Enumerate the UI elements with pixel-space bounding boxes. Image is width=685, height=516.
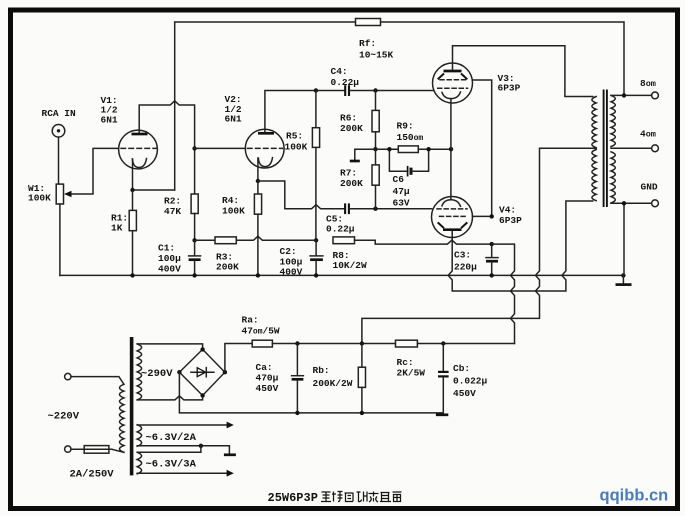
svg-text:Cb:: Cb: xyxy=(453,363,470,374)
svg-text:47om/5W: 47om/5W xyxy=(242,326,280,337)
junction V2 cathode xyxy=(256,179,260,183)
fuse 2A/250V xyxy=(71,448,112,450)
svg-text:Ca:: Ca: xyxy=(256,362,273,373)
wire bridge DC+ up to Ra xyxy=(225,344,252,373)
svg-text:6P3P: 6P3P xyxy=(498,83,521,94)
svg-text:450V: 450V xyxy=(453,388,476,399)
potentiometer W1 xyxy=(56,184,63,204)
terminal 8om xyxy=(652,92,659,99)
wire V4 plate down and around to primary bottom (hops ground rail and verticals) xyxy=(448,201,593,291)
wire screen feed from Rc node (hops rail, plate link, B+ line) xyxy=(492,244,515,343)
svg-text:63V: 63V xyxy=(393,198,410,209)
svg-text:C2:: C2: xyxy=(280,246,297,257)
capacitor C6 bypass loop xyxy=(389,149,406,171)
svg-text:100K: 100K xyxy=(28,193,51,204)
svg-text:0.22μ: 0.22μ xyxy=(331,77,360,88)
junction R5 top xyxy=(314,88,318,92)
output transformer secondary winding xyxy=(611,95,615,146)
ground stub at R6/R7 node xyxy=(355,149,376,160)
wire 8 ohm tap xyxy=(611,94,652,96)
capacitor C1 electrolytic xyxy=(194,240,196,255)
wire V2 cathode to C5 (hop over R5/C2 line) xyxy=(258,181,344,209)
svg-text:400V: 400V xyxy=(158,264,181,275)
wire bridge DC- to PSU ground rail xyxy=(179,372,442,413)
output transformer core xyxy=(603,90,605,208)
svg-text:10K/2W: 10K/2W xyxy=(333,260,368,271)
wire V1 cathode lead xyxy=(132,159,134,190)
resistor R9 cathode bias xyxy=(376,148,399,150)
wire C4 to V3 grid xyxy=(350,90,434,92)
svg-text:100K: 100K xyxy=(222,206,245,217)
svg-text:R4:: R4: xyxy=(222,195,239,206)
svg-text:~6.3V/3A: ~6.3V/3A xyxy=(146,459,197,471)
svg-text:220μ: 220μ xyxy=(454,262,477,273)
svg-text:qqibb.cn: qqibb.cn xyxy=(600,487,669,505)
svg-text:10~15K: 10~15K xyxy=(359,50,394,61)
svg-text:C6: C6 xyxy=(393,174,405,185)
capacitor Ca electrolytic xyxy=(296,344,298,375)
terminal 4om xyxy=(652,145,659,152)
svg-text:Rf:: Rf: xyxy=(359,38,376,49)
wire 4 ohm tap xyxy=(611,147,652,149)
PSU: mains terminal top xyxy=(65,373,71,379)
wire W1 bottom to ground rail xyxy=(59,204,61,275)
wire V3 cathode down to bias node xyxy=(450,99,452,150)
wire heater 2A bottom to chassis xyxy=(137,446,229,454)
svg-text:Rc:: Rc: xyxy=(397,357,414,368)
capacitor C5 xyxy=(344,203,346,214)
wire V3 plate to primary top xyxy=(453,46,593,97)
svg-text:470μ: 470μ xyxy=(256,373,279,384)
heater winding 6.3V/3A xyxy=(137,452,141,474)
svg-text:1K: 1K xyxy=(111,223,123,234)
svg-text:GND: GND xyxy=(641,182,658,193)
wire B+ first node line xyxy=(272,343,395,345)
svg-text:Rb:: Rb: xyxy=(313,365,330,376)
wire V2 cathode lead xyxy=(257,158,259,181)
svg-text:100K: 100K xyxy=(285,141,308,152)
svg-text:C4:: C4: xyxy=(331,66,348,77)
capacitor C4 xyxy=(344,85,346,96)
resistor R6 xyxy=(375,91,377,111)
svg-text:RCA IN: RCA IN xyxy=(42,108,77,119)
wire jack to W1 xyxy=(58,137,60,184)
svg-text:47μ: 47μ xyxy=(393,186,410,197)
junction R2/C1/R3 xyxy=(192,238,196,242)
power transformer core xyxy=(130,337,134,475)
svg-text:200K: 200K xyxy=(216,262,239,273)
wire C5 to V4 grid xyxy=(350,208,432,210)
svg-text:R5:: R5: xyxy=(286,131,303,142)
svg-text:C3:: C3: xyxy=(454,250,471,261)
W1 wiper arrow and grid wire xyxy=(70,148,119,194)
wire V2 plate to C4 line xyxy=(265,91,344,132)
svg-text:25W6P3P: 25W6P3P xyxy=(268,491,318,505)
svg-text:R9:: R9: xyxy=(397,121,414,132)
junction R6/R7/R9 node xyxy=(373,147,377,151)
svg-text:C1:: C1: xyxy=(158,243,175,254)
HV secondary winding 290V xyxy=(137,344,141,400)
resistor R3 on B+ sub-line (hop over R4 lead) xyxy=(195,239,215,241)
svg-text:0.022μ: 0.022μ xyxy=(453,376,488,387)
resistor R8 to screen node (hop over V4 plate line) xyxy=(333,237,355,244)
wire 290V bottom to bridge AC2 (hop over DC- drop) xyxy=(137,396,202,400)
junction screen node with R8 feed xyxy=(490,242,494,246)
beam tetrode V3 xyxy=(433,63,473,103)
wire V4 cathode up to bias node xyxy=(450,149,452,199)
beam tetrode V4 (inverted) xyxy=(432,197,473,238)
junction R6 top xyxy=(373,88,377,92)
svg-text:450V: 450V xyxy=(256,383,279,394)
triode V2 xyxy=(245,129,284,168)
junction R7 bottom xyxy=(373,207,377,211)
wire V1 plate up and over to R2 (hop over feedback line) xyxy=(139,101,194,194)
junction V1 cathode xyxy=(130,188,134,192)
resistor R5 xyxy=(315,91,317,128)
svg-text:~220V: ~220V xyxy=(48,411,80,423)
triode V1 xyxy=(119,130,158,169)
wire V4 screen to screen bus xyxy=(473,215,492,217)
B+ line from PSU to primary center tap (hops rail and plate link) xyxy=(362,148,596,343)
title CJK glyph blocks xyxy=(321,492,402,503)
svg-text:6P3P: 6P3P xyxy=(499,215,522,226)
wire V2 grid from R2 node xyxy=(195,147,246,149)
capacitor C2 electrolytic xyxy=(315,240,317,255)
svg-text:200K: 200K xyxy=(340,178,363,189)
output transformer T2 primary winding xyxy=(592,97,596,148)
svg-text:0.22μ: 0.22μ xyxy=(326,224,355,235)
svg-text:100μ: 100μ xyxy=(158,253,181,264)
resistor R1 xyxy=(132,190,134,210)
junction R5/C2/R3/R8 xyxy=(314,238,318,242)
svg-text:Ra:: Ra: xyxy=(242,315,259,326)
resistor Rf xyxy=(356,19,381,26)
svg-text:200K/2W: 200K/2W xyxy=(313,378,353,389)
resistor R4 xyxy=(257,181,259,194)
svg-text:V4:: V4: xyxy=(499,205,516,216)
node: top feedback rail xyxy=(175,22,356,190)
svg-text:6N1: 6N1 xyxy=(101,114,118,125)
svg-text:6N1: 6N1 xyxy=(225,114,242,125)
svg-text:2K/5W: 2K/5W xyxy=(397,368,426,379)
mains terminal bottom xyxy=(65,446,71,452)
wire GND tap down to ground rail xyxy=(611,202,652,204)
svg-text:4om: 4om xyxy=(640,129,656,140)
svg-text:150om: 150om xyxy=(397,132,424,143)
capacitor Cb xyxy=(442,344,444,371)
junction dot V2 grid tap xyxy=(192,146,196,150)
wire mains top to primary xyxy=(71,377,124,385)
resistor R7 xyxy=(375,149,377,165)
resistor Rc screen dropper xyxy=(396,340,418,347)
resistor R2 xyxy=(191,194,198,214)
resistor Rb bleeder xyxy=(361,344,363,368)
svg-text:8om: 8om xyxy=(640,78,656,89)
svg-text:~6.3V/2A: ~6.3V/2A xyxy=(146,432,197,444)
heater winding 6.3V/2A xyxy=(137,425,141,447)
wire 290V top to bridge AC1 xyxy=(137,344,202,350)
resistor Ra xyxy=(252,340,272,347)
capacitor C3 electrolytic xyxy=(491,244,493,257)
svg-text:47K: 47K xyxy=(164,206,181,217)
terminal GND xyxy=(652,200,659,207)
ground symbol at PSU rail end xyxy=(436,413,448,416)
bridge rectifier D1 xyxy=(179,349,225,395)
power transformer T1 primary winding 220V xyxy=(120,384,124,452)
wire feedback to cathode node xyxy=(133,189,175,191)
svg-text:2A/250V: 2A/250V xyxy=(70,469,115,481)
svg-text:200K: 200K xyxy=(340,123,363,134)
svg-text:R6:: R6: xyxy=(340,112,357,123)
ground symbol at rail right end xyxy=(622,275,624,283)
main ground rail xyxy=(60,274,624,276)
svg-text:~290V: ~290V xyxy=(141,368,173,380)
wire V3 screen to screen bus xyxy=(472,80,491,216)
